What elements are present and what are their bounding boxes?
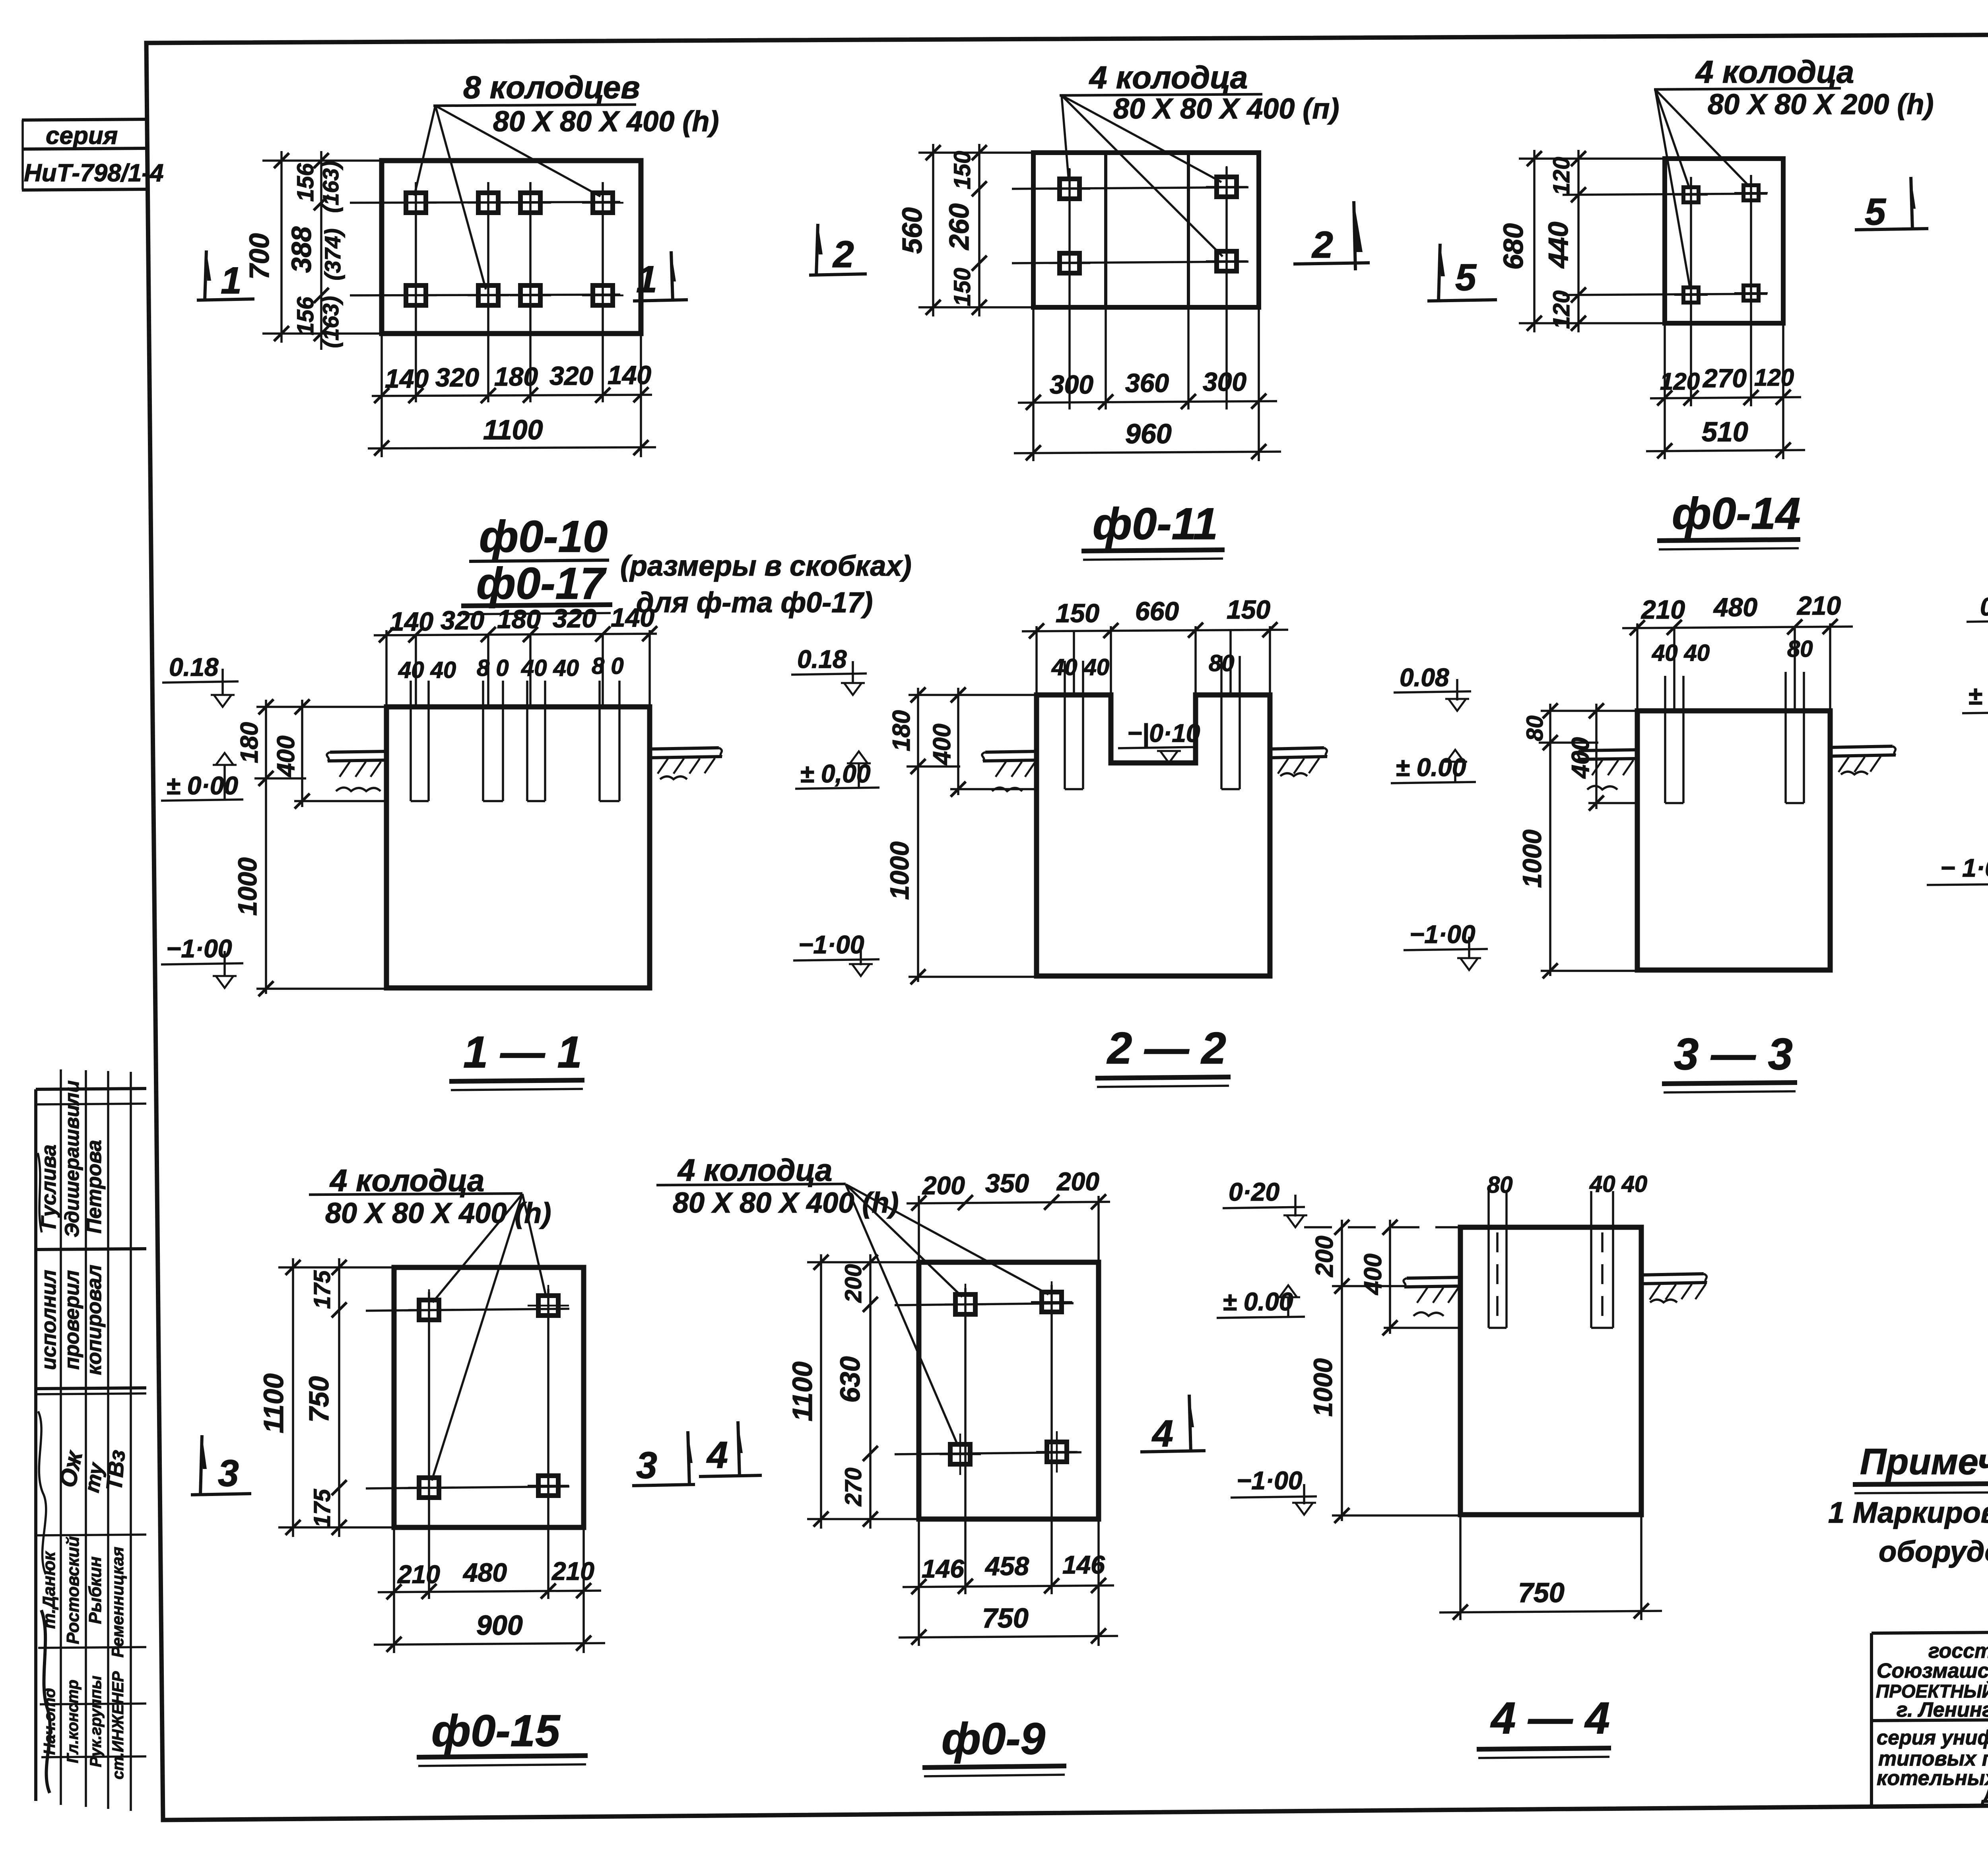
svg-text:4 колодца: 4 колодца (677, 1153, 832, 1188)
svg-text:210: 210 (1796, 591, 1841, 620)
section 2-2 title (1095, 1023, 1231, 1087)
svg-text:180: 180 (888, 710, 915, 751)
svg-text:для ф-та ф0-17): для ф-та ф0-17) (636, 587, 873, 619)
svg-text:120: 120 (1754, 364, 1794, 391)
FO-10 leader 8 kolodtsev (414, 70, 719, 289)
svg-text:320: 320 (553, 603, 596, 633)
svg-text:ф0-10: ф0-10 (479, 512, 608, 561)
svg-text:исполнил: исполнил (37, 1270, 60, 1370)
svg-text:0.10: 0.10 (1980, 592, 1988, 621)
section 1-1 level mark +-0.00 (161, 753, 243, 801)
section 3-3 ground slab left (1577, 750, 1637, 790)
section 1-1 level mark -1.00 (161, 934, 243, 988)
section 2-2 top dimension line (1022, 595, 1288, 695)
svg-text:4 колодца: 4 колодца (1089, 60, 1248, 95)
svg-text:120: 120 (1660, 368, 1700, 395)
svg-text:40 40: 40 40 (1589, 1171, 1647, 1197)
svg-text:ф0-15: ф0-15 (431, 1706, 561, 1756)
FO-10 section mark 1 left (197, 250, 254, 302)
svg-text:(374): (374) (320, 229, 345, 281)
section 5-5 level mark +-0.00 (1962, 671, 1988, 713)
FO-11 anchor wells 4x (1012, 166, 1248, 409)
svg-text:156: 156 (293, 297, 318, 336)
section 3-3 level mark +-0.00 (1391, 750, 1476, 783)
svg-text:150: 150 (949, 268, 975, 307)
svg-text:156: 156 (293, 163, 318, 202)
svg-text:ст.ИНЖЕНЕР: ст.ИНЖЕНЕР (109, 1671, 127, 1779)
section mark 4 for 4-4 (699, 1421, 762, 1477)
section 2-2 level mark 0.18 (791, 645, 867, 695)
svg-text:140: 140 (608, 360, 651, 390)
section 4-4 foundation body (1460, 1227, 1641, 1515)
section 3-3 title (1662, 1029, 1797, 1092)
svg-text:440: 440 (1543, 222, 1574, 269)
FO-10 section mark 1 right (633, 251, 688, 301)
section 4-4 level mark 0.20 (1223, 1178, 1307, 1227)
section 4-4 title (1477, 1693, 1611, 1758)
svg-text:− 1·00: − 1·00 (1940, 854, 1988, 882)
svg-text:1: 1 (636, 258, 657, 301)
svg-text:146: 146 (1062, 1550, 1105, 1579)
svg-text:175: 175 (309, 1270, 335, 1309)
FO-14 title (1657, 489, 1800, 549)
svg-text:210: 210 (1640, 595, 1685, 624)
FO-9 bottom dimensions (899, 1519, 1118, 1646)
foundation plan FO-10/FO-17 outline (382, 161, 641, 334)
FO-11 leader 4 kolodtsa (1060, 60, 1339, 256)
FO-11 section mark 2 right (1293, 201, 1370, 270)
svg-text:150: 150 (949, 151, 975, 190)
FO-15 left dimensions (258, 1258, 394, 1537)
left margin signature table (36, 1069, 146, 1811)
svg-text:Рук.группы: Рук.группы (87, 1676, 105, 1767)
svg-text:120: 120 (1549, 291, 1574, 329)
section 1-1 top dimension line (374, 603, 657, 707)
foundation plan FO-11 outline (1033, 153, 1259, 307)
svg-text:Петрова: Петрова (83, 1140, 106, 1234)
section 2-2 ground slab left (982, 751, 1037, 791)
svg-text:140: 140 (385, 364, 429, 393)
svg-text:1000: 1000 (1308, 1358, 1338, 1416)
svg-text:180: 180 (497, 604, 541, 634)
section 3-3 anchor slots (1652, 627, 1813, 803)
svg-text:(163): (163) (318, 161, 343, 213)
svg-text:400: 400 (272, 735, 300, 777)
svg-text:510: 510 (1702, 416, 1748, 447)
svg-text:388: 388 (286, 227, 317, 273)
svg-text:300: 300 (1203, 367, 1246, 396)
FO-14 anchor wells 4x (1563, 175, 1768, 406)
FO-15 section mark 3 left (191, 1435, 251, 1495)
svg-text:80 X 80 X 400 (п): 80 X 80 X 400 (п) (1113, 93, 1339, 125)
section 4-4 level mark -1.00 (1231, 1466, 1317, 1515)
svg-text:НиТ-798/1-4: НиТ-798/1-4 (24, 159, 163, 187)
svg-text:700: 700 (244, 233, 275, 280)
svg-text:320: 320 (549, 361, 593, 390)
FO-14 leader 4 kolodtsa (1654, 54, 1934, 287)
svg-text:400: 400 (1359, 1253, 1387, 1295)
svg-text:300: 300 (1050, 370, 1093, 399)
section 2-2 ground slab right (1270, 748, 1327, 776)
section 3-3 level mark 0.08 (1394, 663, 1471, 711)
svg-text:серия унифицированных: серия унифицированных (1877, 1726, 1988, 1749)
svg-text:0.18: 0.18 (169, 653, 219, 681)
section 3-3 ground slab right (1830, 746, 1896, 774)
section 1-1 left vertical dimensions (233, 699, 386, 996)
svg-text:350: 350 (985, 1168, 1029, 1198)
svg-text:0·20: 0·20 (1229, 1178, 1279, 1206)
section 3-3 top dimension line (1622, 591, 1853, 711)
svg-text:4: 4 (1151, 1413, 1173, 1455)
foundation plan FO-14 outline (1665, 159, 1783, 323)
FO-11 bottom dimensions (1014, 307, 1281, 461)
svg-text:−1·00: −1·00 (166, 934, 232, 963)
svg-text:3 — 3: 3 — 3 (1674, 1029, 1793, 1079)
svg-text:−1·00: −1·00 (798, 930, 864, 959)
FO-14 section mark 5 right (1855, 177, 1928, 233)
section 3-3 left vertical dimensions (1517, 703, 1637, 978)
svg-text:1000: 1000 (885, 841, 914, 900)
FO-11 section mark 2 left (809, 224, 867, 276)
svg-text:140: 140 (611, 603, 654, 632)
svg-text:320: 320 (441, 605, 484, 635)
notes text (1828, 1496, 1988, 1568)
svg-text:750: 750 (303, 1376, 334, 1423)
svg-text:Ременницкая: Ременницкая (108, 1547, 127, 1658)
svg-text:2: 2 (1311, 224, 1333, 266)
svg-text:400: 400 (1567, 737, 1594, 779)
FO-15 title (417, 1706, 588, 1766)
section 2-2 left vertical dimensions (885, 687, 1037, 984)
FO-15 anchor wells 4x (366, 1285, 569, 1599)
FO-9 left dimensions (787, 1254, 919, 1529)
svg-text:200: 200 (1056, 1167, 1099, 1196)
svg-text:200: 200 (922, 1171, 965, 1200)
svg-text:Союзмашстройпроект: Союзмашстройпроект (1877, 1659, 1988, 1682)
svg-text:960: 960 (1125, 418, 1172, 449)
section 4-4 ground slab right (1641, 1274, 1707, 1302)
section 4-4 bottom dimension 750 (1439, 1515, 1662, 1620)
section 1-1 ground slab right (650, 748, 722, 779)
svg-text:8 0: 8 0 (477, 655, 509, 681)
svg-text:480: 480 (462, 1558, 507, 1587)
svg-text:80: 80 (1522, 716, 1548, 741)
svg-text:оборудование смотреть листы: оборудование смотреть листы КЖЕ-3,4,5 (1879, 1535, 1988, 1568)
svg-text:Эдишерашвили: Эдишерашвили (61, 1081, 83, 1238)
FO-9 section mark 3 right (632, 1431, 695, 1486)
svg-text:270: 270 (841, 1468, 866, 1507)
section 5-5 level mark -1.00 (1927, 854, 1988, 904)
section 2-2 foundation body with notch (1037, 695, 1270, 976)
svg-text:150: 150 (1227, 595, 1270, 624)
FO-15 leader 4 kolodtsa (309, 1163, 551, 1481)
svg-text:630: 630 (835, 1356, 866, 1403)
section 4-4 anchor slots dashed (1487, 1171, 1647, 1328)
FO-14 left dimensions (1498, 150, 1665, 332)
FO-9 section mark 4 right (1140, 1395, 1206, 1455)
svg-text:40 40: 40 40 (398, 657, 456, 683)
svg-text:458: 458 (984, 1551, 1029, 1581)
FO-14 bottom dimensions (1646, 323, 1805, 459)
svg-text:175: 175 (309, 1489, 335, 1528)
svg-text:проверил: проверил (60, 1270, 83, 1370)
svg-text:1000: 1000 (1517, 829, 1547, 888)
notes title Primechaniya (1853, 1442, 1988, 1493)
section 4-4 ground slab left (1404, 1277, 1460, 1316)
section 3-3 level mark -1.00 (1404, 920, 1488, 970)
svg-text:200: 200 (1311, 1236, 1338, 1277)
svg-text:2 — 2: 2 — 2 (1107, 1023, 1226, 1073)
svg-text:320: 320 (435, 363, 479, 392)
section 1-1 ground slab left (327, 751, 386, 791)
FO-9 anchor wells 4x (895, 1281, 1081, 1594)
svg-text:210: 210 (397, 1560, 440, 1589)
svg-text:750: 750 (982, 1603, 1029, 1634)
svg-text:80 X 80 X 400 (h): 80 X 80 X 400 (h) (493, 106, 719, 138)
svg-text:± 0·00: ± 0·00 (166, 771, 238, 800)
svg-text:270: 270 (1702, 363, 1747, 393)
svg-text:480: 480 (1713, 592, 1757, 622)
svg-text:40 40: 40 40 (521, 655, 579, 681)
svg-text:серия: серия (46, 122, 118, 149)
section 1-1 foundation body (386, 707, 650, 988)
svg-text:Рыбкин: Рыбкин (85, 1556, 105, 1624)
svg-text:5: 5 (1455, 256, 1477, 299)
svg-text:0.18: 0.18 (797, 645, 847, 673)
section 1-1 title (449, 1027, 584, 1090)
svg-text:400: 400 (928, 724, 956, 765)
svg-text:1100: 1100 (483, 414, 543, 445)
svg-text:150: 150 (1056, 598, 1099, 628)
FO-11 title (1081, 499, 1225, 560)
svg-text:900: 900 (476, 1610, 523, 1641)
svg-text:котельных с котлами: котельных с котлами (1877, 1767, 1988, 1790)
svg-text:3: 3 (636, 1444, 657, 1486)
section 1-1 level mark 0.18 (162, 653, 239, 707)
svg-text:−1·00: −1·00 (1237, 1466, 1302, 1495)
svg-text:4 колодца: 4 колодца (1695, 54, 1854, 89)
foundation plan FO-9 outline (919, 1262, 1099, 1519)
svg-text:360: 360 (1125, 368, 1169, 398)
svg-text:1100: 1100 (258, 1374, 289, 1434)
svg-text:ф0-17: ф0-17 (476, 559, 607, 608)
section 2-2 anchor slots (1051, 631, 1240, 789)
svg-text:40 40: 40 40 (1652, 640, 1710, 666)
svg-text:Ростовский: Ростовский (63, 1536, 83, 1644)
FO-10 / FO-17 title (461, 512, 912, 619)
svg-text:80: 80 (1487, 1172, 1513, 1198)
svg-text:80 X 80 X 200 (h): 80 X 80 X 200 (h) (1708, 89, 1934, 120)
svg-text:8 0: 8 0 (592, 653, 624, 679)
FO-10 left dimensions (244, 151, 382, 350)
svg-text:1: 1 (221, 260, 242, 302)
section 2-2 level mark +-0.00 (795, 751, 879, 789)
section 3-3 foundation body (1637, 711, 1830, 970)
FO-10 bottom dimensions (368, 334, 656, 457)
svg-text:560: 560 (897, 208, 928, 254)
svg-text:ТВз: ТВз (101, 1449, 130, 1492)
svg-text:−|0·10: −|0·10 (1127, 719, 1200, 747)
svg-text:2: 2 (832, 233, 854, 276)
svg-text:200: 200 (841, 1264, 866, 1303)
svg-text:8 колодцев: 8 колодцев (463, 70, 640, 105)
section 1-1 anchor slots (398, 635, 624, 801)
svg-text:750: 750 (1518, 1577, 1565, 1608)
svg-text:1000: 1000 (233, 857, 262, 916)
svg-text:ф0-9: ф0-9 (942, 1714, 1045, 1764)
FO-10 anchor wells 8x (350, 182, 623, 402)
svg-text:180: 180 (494, 362, 538, 391)
title block frame (1872, 1628, 1988, 1808)
svg-text:копировал: копировал (83, 1265, 106, 1375)
svg-text:1100: 1100 (787, 1362, 818, 1422)
svg-text:(163): (163) (318, 296, 343, 348)
svg-text:680: 680 (1498, 223, 1529, 270)
svg-text:80: 80 (1209, 650, 1235, 676)
section 4-4 level mark +-0.00 (1217, 1285, 1305, 1318)
FO-9 leader 4 kolodtsa (656, 1153, 1048, 1446)
svg-text:−1·00: −1·00 (1409, 920, 1475, 949)
svg-text:260: 260 (944, 204, 975, 251)
svg-text:1 — 1: 1 — 1 (463, 1027, 582, 1077)
svg-text:140: 140 (390, 607, 433, 636)
svg-text:ф0-14: ф0-14 (1672, 489, 1800, 538)
svg-text:ф0-11: ф0-11 (1093, 499, 1218, 549)
svg-text:180: 180 (236, 722, 263, 763)
svg-text:80: 80 (1787, 636, 1813, 662)
svg-text:3: 3 (218, 1452, 239, 1494)
svg-text:146: 146 (922, 1554, 964, 1583)
svg-text:4 — 4: 4 — 4 (1490, 1693, 1610, 1743)
svg-text:5: 5 (1865, 191, 1886, 233)
series stamp box top-left (22, 119, 163, 190)
svg-text:40 40: 40 40 (1051, 654, 1109, 680)
section 4-4 left vertical dimensions (1304, 1220, 1460, 1523)
title block institute column (1876, 1640, 1988, 1807)
svg-text:660: 660 (1135, 596, 1179, 626)
svg-text:Примечания: Примечания (1860, 1442, 1988, 1482)
FO-15 bottom dimensions (374, 1527, 605, 1653)
svg-text:(размеры в скобках): (размеры в скобках) (620, 550, 912, 582)
FO-11 left dimensions (897, 144, 1033, 316)
svg-text:0.08: 0.08 (1400, 663, 1449, 692)
FO-9 top dimensions (907, 1167, 1110, 1262)
foundation plan FO-15 outline (394, 1267, 584, 1527)
section 2-2 level mark -1.00 (793, 930, 879, 976)
svg-text:120: 120 (1549, 157, 1574, 196)
svg-text:1 Маркировочный план фундаме: 1 Маркировочный план фундаментов под (1828, 1496, 1988, 1529)
section 5-5 level mark 0.10 (1967, 592, 1988, 643)
section 2-2 notch level -0.10 (1118, 719, 1200, 763)
svg-text:± 0.00: ± 0.00 (1968, 681, 1988, 710)
svg-text:Гл.констр: Гл.констр (64, 1680, 82, 1763)
FO-9 title (922, 1714, 1066, 1776)
svg-text:г. Ленинград 1967: г. Ленинград 1967 (1897, 1698, 1988, 1721)
svg-text:210: 210 (551, 1557, 594, 1585)
FO-14 section mark 5 left (1427, 244, 1497, 301)
svg-text:4: 4 (706, 1434, 728, 1476)
